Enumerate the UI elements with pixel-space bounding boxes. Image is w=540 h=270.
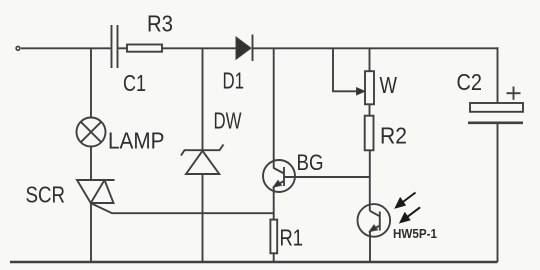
svg-text:C1: C1	[123, 70, 146, 96]
wire C1 to R3	[119, 47, 128, 49]
wire phototransistor emitter to bottom	[369, 231, 371, 262]
phototransistor HW5P-1	[358, 204, 391, 237]
wire C2 to bottom	[497, 124, 499, 262]
wire SCR gate	[92, 204, 274, 214]
wire wiper branch	[333, 48, 358, 91]
potentiometer W	[365, 71, 374, 104]
svg-text:C2: C2	[457, 69, 483, 95]
svg-text:BG: BG	[297, 150, 324, 175]
wire R1 to bottom	[273, 253, 275, 262]
wire zener branch	[202, 48, 204, 150]
wire SCR cathode down	[90, 203, 92, 262]
wire R3 to D1	[162, 47, 236, 49]
wire top: terminal to C1	[21, 47, 111, 49]
svg-text:D1: D1	[223, 68, 245, 94]
resistor R2	[365, 116, 374, 151]
lamp LAMP	[77, 118, 106, 147]
svg-text:DW: DW	[214, 107, 242, 133]
svg-text:R1: R1	[280, 224, 304, 250]
wire lamp to SCR	[90, 147, 92, 181]
wire lamp branch	[90, 48, 92, 117]
wire W branch top	[369, 48, 371, 71]
capacitor C1	[112, 25, 118, 68]
wire bottom rail	[10, 261, 498, 264]
svg-text:LAMP: LAMP	[108, 128, 165, 154]
resistor R1	[270, 220, 277, 254]
wire BG emitter down	[273, 186, 275, 219]
svg-text:R3: R3	[147, 10, 173, 36]
svg-text:SCR: SCR	[26, 182, 66, 208]
wire W to R2	[369, 104, 371, 115]
svg-text:R2: R2	[380, 122, 407, 148]
light arrow 1	[395, 193, 415, 209]
wire BG base	[284, 176, 370, 178]
wire BG collector	[273, 48, 275, 168]
svg-text:HW5P-1: HW5P-1	[393, 226, 437, 241]
plus polarity mark	[507, 87, 521, 100]
svg-text:W: W	[380, 72, 398, 98]
capacitor C2	[468, 103, 523, 123]
wire D1 to C2 corner	[253, 47, 498, 49]
wiper arrow	[357, 88, 366, 95]
diode D1	[236, 35, 253, 62]
resistor R3	[127, 45, 162, 52]
light arrow 2	[400, 207, 420, 223]
thyristor SCR	[77, 180, 115, 203]
wire C2 branch top	[497, 47, 499, 103]
transistor BG	[263, 160, 295, 192]
wire zener to bottom	[202, 174, 204, 262]
zener DW	[181, 145, 224, 175]
wire R2 down to phototransistor	[369, 150, 371, 211]
terminal input	[16, 46, 20, 50]
